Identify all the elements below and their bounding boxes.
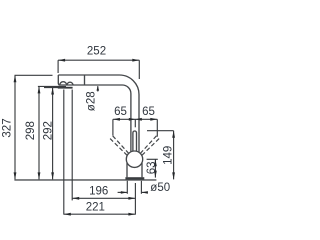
svg-text:63: 63 — [146, 162, 158, 175]
svg-text:149: 149 — [162, 146, 174, 165]
svg-text:65: 65 — [142, 106, 155, 118]
svg-text:ø50: ø50 — [150, 182, 170, 194]
svg-text:327: 327 — [1, 118, 13, 137]
svg-text:298: 298 — [25, 121, 37, 140]
svg-text:ø28: ø28 — [86, 91, 98, 111]
svg-text:196: 196 — [89, 186, 108, 198]
svg-text:221: 221 — [86, 202, 105, 214]
svg-text:65: 65 — [114, 106, 127, 118]
svg-text:252: 252 — [87, 46, 106, 58]
svg-text:292: 292 — [43, 121, 55, 140]
